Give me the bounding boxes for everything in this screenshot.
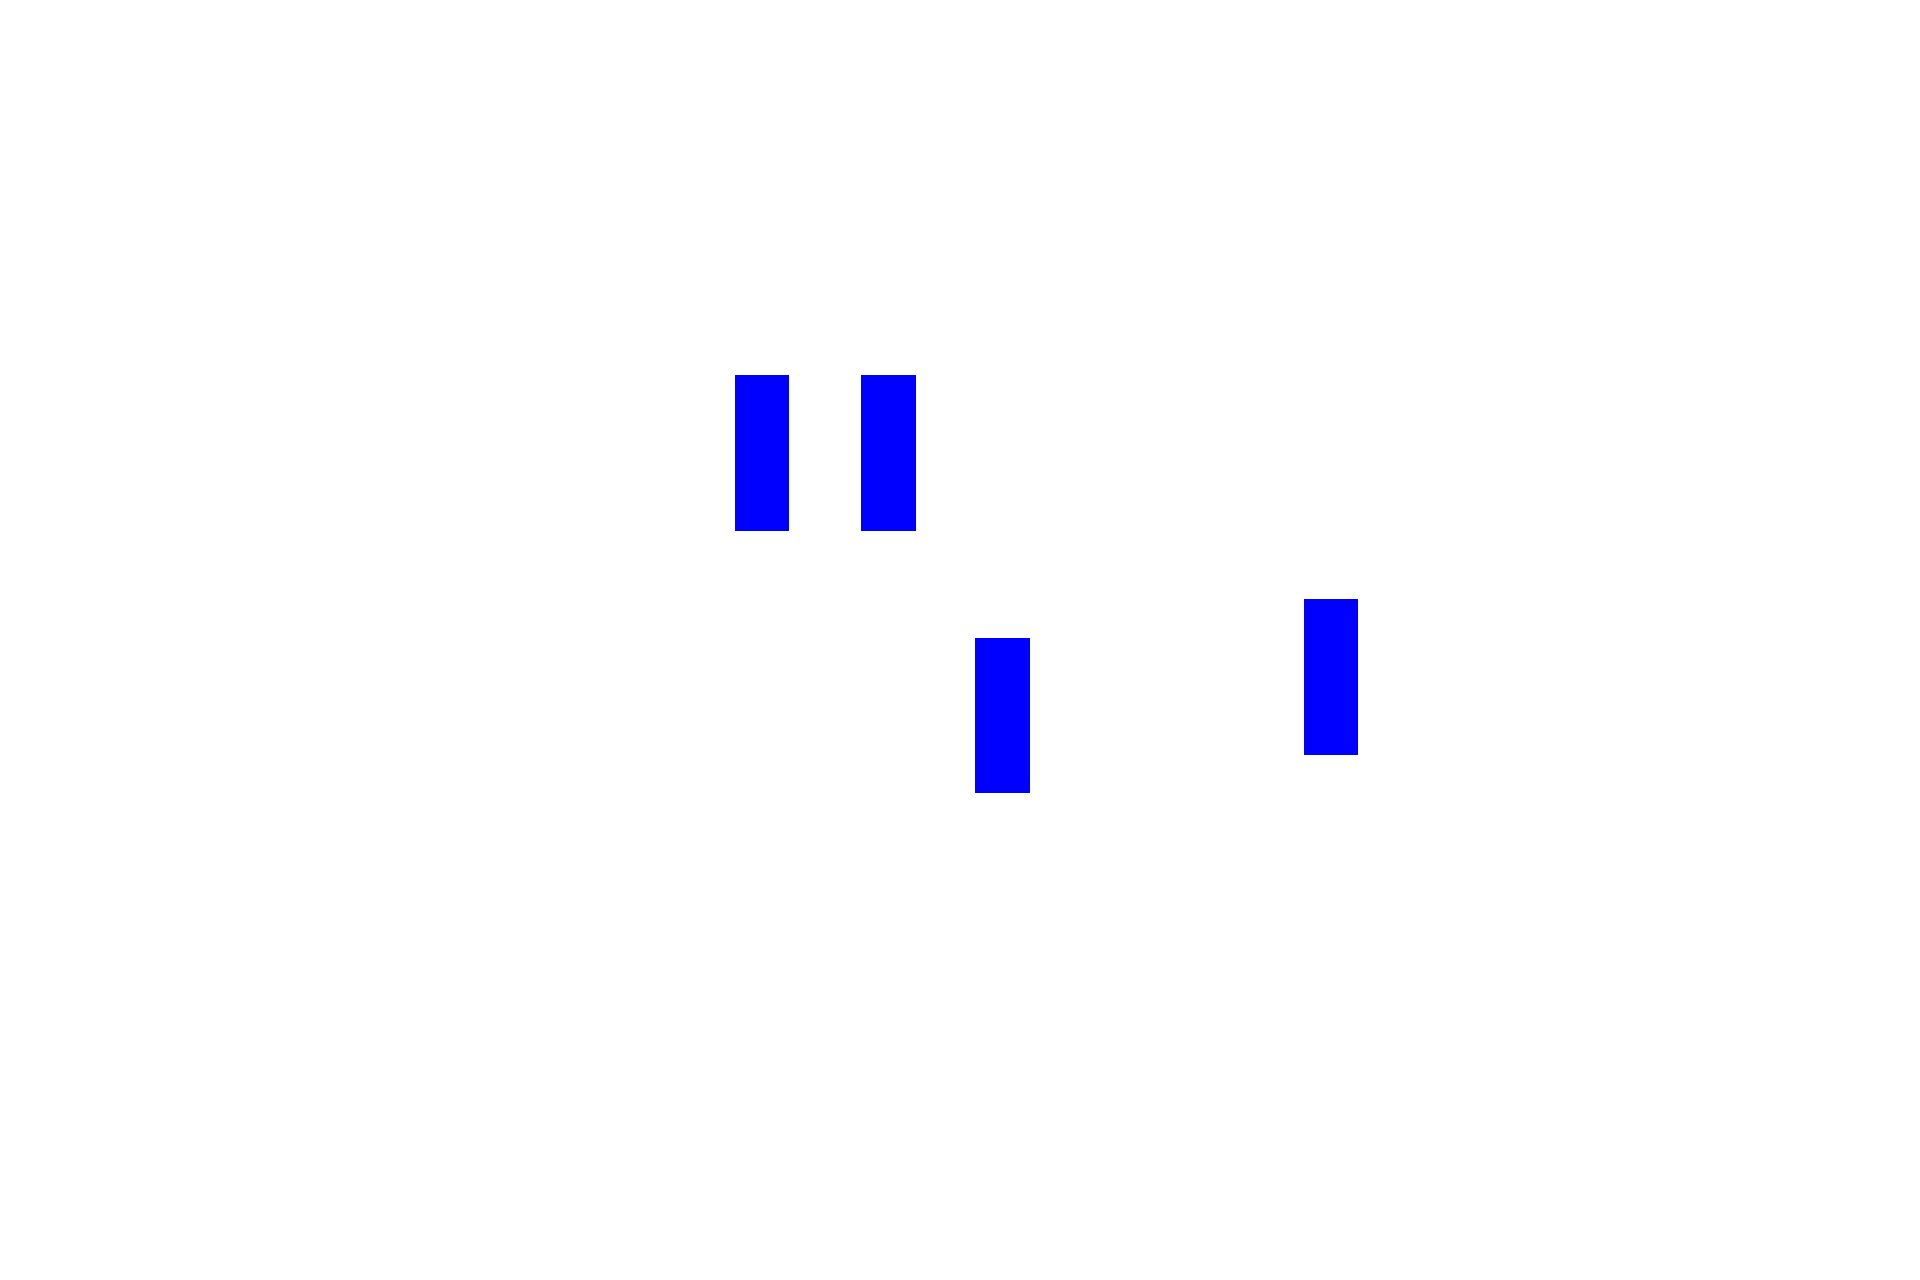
bar 4 (rightmost): [1304, 599, 1358, 755]
bar 3: [975, 638, 1030, 793]
bar 1 (candlestick body, leftmost): [735, 375, 789, 531]
bar 2: [861, 375, 916, 531]
